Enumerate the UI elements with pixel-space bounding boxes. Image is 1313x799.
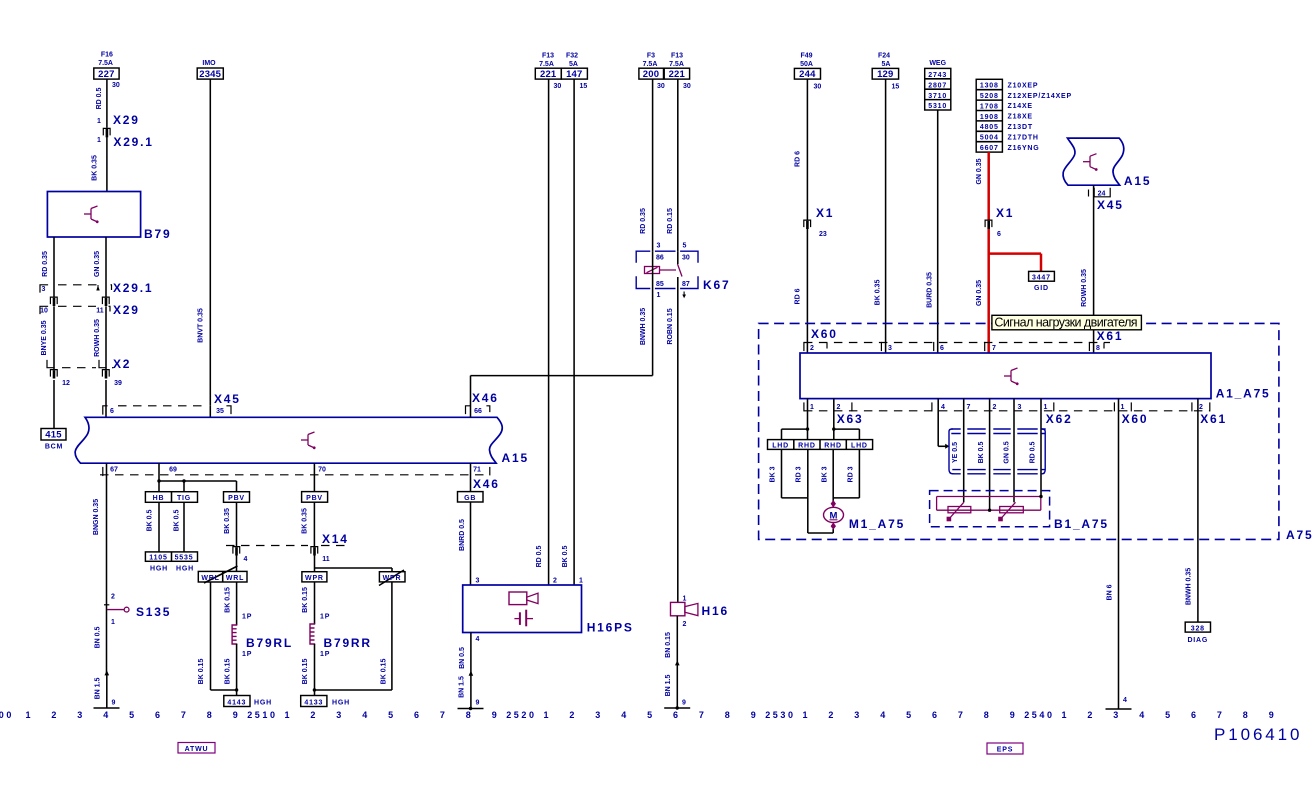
svg-text:6: 6 (932, 710, 940, 720)
ground code 4133 HGH (301, 696, 350, 707)
label X60 (bottom) (1122, 412, 1149, 426)
variant codes LHD/RHD/RHD/LHD (768, 440, 873, 450)
svg-text:H16PS: H16PS (587, 621, 634, 635)
wire BK 0.5 from F32/15 to H16PS/1 (562, 79, 574, 585)
B1_A75 internal circuit (potentiometers) (937, 495, 1043, 522)
svg-text:7: 7 (181, 710, 189, 720)
wire BK 0.35 from PBV right to X14/11 (302, 502, 315, 546)
svg-text:X1: X1 (996, 206, 1014, 220)
svg-text:X46: X46 (473, 477, 500, 491)
wire BK 0.5 (HB to 1105) (147, 502, 160, 552)
svg-text:1: 1 (657, 292, 661, 299)
svg-text:4: 4 (1123, 697, 1127, 704)
svg-text:1P: 1P (242, 651, 252, 658)
label X29 (lower) (113, 303, 140, 317)
svg-text:8: 8 (207, 710, 215, 720)
wire BN 6 from X60/1 to ground (1107, 399, 1119, 709)
svg-text:A75: A75 (1286, 528, 1313, 542)
wire BNWH 0.35 from K67/85 to X46/66 (471, 289, 653, 418)
svg-text:Z14XE: Z14XE (1008, 103, 1033, 110)
svg-text:HB: HB (153, 495, 165, 502)
svg-text:Сигнал нагрузки двигателя: Сигнал нагрузки двигателя (994, 316, 1137, 330)
wire from X14/4 splitting to WRL (204, 555, 238, 583)
svg-text:PBV: PBV (228, 495, 245, 502)
svg-text:1: 1 (579, 578, 583, 585)
svg-text:2: 2 (569, 710, 577, 720)
fuse F49 50A (244) (794, 53, 821, 91)
svg-text:200: 200 (643, 69, 659, 80)
svg-text:15: 15 (892, 84, 900, 91)
svg-text:5: 5 (906, 710, 914, 720)
svg-text:2: 2 (111, 594, 115, 601)
engine variant table (1308..6607) (976, 79, 1072, 152)
svg-text:66: 66 (474, 408, 482, 415)
svg-text:BK 0.35: BK 0.35 (224, 508, 231, 534)
svg-text:K67: K67 (703, 278, 730, 292)
wire from A15/69 with junction (159, 463, 237, 492)
svg-text:3: 3 (657, 243, 661, 250)
svg-text:A15: A15 (1124, 174, 1151, 188)
svg-text:RD 6: RD 6 (795, 151, 802, 167)
ground (H16PS), pin 9 (458, 700, 484, 711)
svg-text:30: 30 (682, 255, 690, 262)
label X62 (1046, 412, 1073, 426)
pump motor M1_A75 (824, 500, 906, 531)
svg-text:Z13DT: Z13DT (1008, 124, 1033, 131)
svg-text:24: 24 (1098, 190, 1106, 197)
svg-text:6607: 6607 (980, 145, 999, 152)
svg-text:6: 6 (673, 710, 681, 720)
wire BNWH 0.35 from X61/2 to DIAG (1186, 399, 1198, 622)
svg-text:2: 2 (1199, 404, 1203, 411)
svg-text:2: 2 (553, 578, 557, 585)
svg-text:2530: 2530 (765, 710, 795, 720)
connector X46 top label (472, 391, 499, 405)
label X61 (bottom) (1200, 412, 1227, 426)
svg-text:1: 1 (810, 404, 814, 411)
switch S135 (104, 594, 171, 627)
svg-text:HGH: HGH (150, 566, 168, 573)
svg-text:RD 0.5: RD 0.5 (1030, 442, 1037, 464)
svg-text:1P: 1P (320, 614, 330, 621)
svg-text:30: 30 (657, 83, 665, 90)
svg-text:PBV: PBV (306, 495, 323, 502)
wire BNGN 0.35 from A15/67 to S135 (93, 463, 107, 604)
svg-text:ROBN 0.15: ROBN 0.15 (667, 308, 674, 344)
fuse F3 7.5A (200) (639, 53, 665, 91)
svg-text:BK 0.5: BK 0.5 (978, 442, 985, 464)
svg-text:9: 9 (112, 700, 116, 707)
svg-text:LHD: LHD (851, 443, 868, 450)
svg-text:RD 3: RD 3 (848, 466, 855, 482)
svg-text:BN 0.5: BN 0.5 (95, 627, 102, 649)
svg-text:3: 3 (1113, 710, 1121, 720)
wire ROBN 0.15 from K67/87 to H16/1 (667, 289, 678, 603)
diagnostic node 328 DIAG (1185, 622, 1210, 644)
svg-text:B1_A75: B1_A75 (1054, 517, 1109, 531)
svg-text:HGH: HGH (176, 566, 194, 573)
svg-text:5535: 5535 (175, 555, 194, 562)
svg-text:1: 1 (802, 710, 810, 720)
svg-text:HGH: HGH (332, 700, 350, 707)
connector X46 bottom dashed line (100, 474, 488, 476)
svg-text:2: 2 (1087, 710, 1095, 720)
ground (H16), pin 9 (664, 700, 690, 710)
svg-text:2520: 2520 (506, 710, 536, 720)
svg-text:35: 35 (216, 408, 224, 415)
svg-text:HGH: HGH (254, 700, 272, 707)
wire A15/71 to GB (470, 463, 472, 491)
svg-text:4: 4 (244, 556, 248, 563)
svg-text:87: 87 (682, 281, 690, 288)
svg-text:X45: X45 (1097, 198, 1124, 212)
horn H16 (671, 596, 729, 629)
wire from X14/11 splitting to WPR (315, 555, 405, 586)
svg-text:BK 0.35: BK 0.35 (92, 155, 99, 181)
svg-text:11: 11 (322, 556, 330, 563)
svg-text:4143: 4143 (227, 699, 246, 706)
svg-text:7: 7 (699, 710, 707, 720)
wire RD 0.35 from B79 to X29.1 (42, 237, 54, 297)
connector line X60/X61 (dashed) (804, 342, 1110, 344)
svg-text:ATWU: ATWU (185, 746, 209, 753)
connector codes WPR / WPR (302, 572, 405, 582)
svg-text:EPS: EPS (997, 747, 1013, 754)
svg-text:5: 5 (647, 710, 655, 720)
wire RD 3 (RHD2) (796, 449, 808, 498)
svg-text:1105: 1105 (149, 555, 167, 562)
svg-text:227: 227 (98, 69, 114, 80)
component B79 heated washer jets control (47, 192, 171, 242)
svg-text:X60: X60 (1122, 412, 1149, 426)
connector X29.1 row (pins 3, arrow) (40, 285, 112, 293)
svg-text:X29: X29 (113, 113, 140, 127)
fuse F16 7.5A (227) (94, 52, 120, 90)
svg-text:1: 1 (284, 710, 292, 720)
svg-text:RHD: RHD (798, 443, 816, 450)
svg-text:8: 8 (725, 710, 733, 720)
svg-text:F24: F24 (878, 53, 890, 60)
svg-text:221: 221 (540, 69, 557, 80)
svg-text:S135: S135 (136, 605, 171, 619)
svg-text:2: 2 (828, 710, 836, 720)
svg-text:BK 0.5: BK 0.5 (174, 510, 181, 532)
wire GN 0.35 (highlighted) from table to X1/6 (976, 152, 989, 219)
svg-text:86: 86 (656, 255, 664, 262)
wire BURD 0.35 from WEG to X60/6 (927, 110, 938, 353)
label X29 (113, 113, 140, 127)
svg-text:71: 71 (473, 467, 481, 474)
svg-text:BN 6: BN 6 (1107, 584, 1114, 600)
svg-text:2: 2 (993, 404, 997, 411)
connector X14 dashed line (226, 545, 345, 547)
X62 pin 7 (967, 404, 971, 411)
svg-text:3: 3 (854, 710, 862, 720)
connector X1 pin 6 (985, 206, 1014, 238)
horn module H16PS (463, 578, 634, 635)
svg-text:3: 3 (595, 710, 603, 720)
svg-text:129: 129 (877, 69, 893, 80)
svg-text:RD 0.35: RD 0.35 (640, 208, 647, 234)
svg-text:4: 4 (103, 710, 111, 720)
svg-text:YE 0.5: YE 0.5 (952, 442, 959, 463)
wire merge left pair to motor bottom (782, 498, 834, 533)
diagram number P106410 (1214, 725, 1302, 744)
heater element B79RL (232, 625, 293, 650)
svg-text:85: 85 (656, 281, 664, 288)
svg-text:5: 5 (1165, 710, 1173, 720)
svg-text:BK 0.15: BK 0.15 (225, 587, 232, 613)
svg-text:BK 0.15: BK 0.15 (381, 659, 388, 685)
fuse F13 7.5A (221) right (664, 53, 691, 91)
label X2 (113, 357, 131, 371)
wire BN 0.5 from H16PS/4 (459, 633, 480, 674)
svg-text:5310: 5310 (928, 103, 947, 110)
svg-text:F16: F16 (101, 52, 113, 59)
svg-text:7: 7 (967, 404, 971, 411)
heater element B79RR (310, 624, 372, 650)
tooltip: Сигнал нагрузки двигателя (992, 315, 1142, 330)
svg-text:RD 0.5: RD 0.5 (96, 88, 103, 110)
svg-text:4: 4 (362, 710, 370, 720)
connector X1 pin 23 (804, 206, 834, 238)
wire BK 0.15 from WPR(1) to B79RR (302, 582, 330, 624)
power steering module A1_A75 (800, 353, 1271, 401)
svg-text:3: 3 (888, 345, 892, 352)
svg-text:WPR: WPR (305, 575, 324, 582)
connector X2 (pins 12, 39) (47, 361, 122, 388)
svg-text:BN 1.5: BN 1.5 (459, 676, 466, 698)
svg-text:ROWH 0.35: ROWH 0.35 (1081, 269, 1088, 307)
connector X14 pin 4 (233, 547, 248, 563)
svg-text:00: 00 (0, 710, 14, 720)
wire X62/4 to shield (drain) (938, 399, 949, 449)
svg-text:BK 0.15: BK 0.15 (225, 659, 232, 685)
svg-text:4: 4 (941, 404, 945, 411)
svg-text:RD 3: RD 3 (796, 466, 803, 482)
svg-text:2743: 2743 (928, 72, 947, 79)
svg-text:F13: F13 (542, 53, 554, 60)
wire BK 3 (LHD1) (770, 449, 782, 498)
X62 pin 4 (932, 403, 945, 411)
ECU A15 (fragment) (1063, 138, 1151, 188)
wire GN 0.5 X62/3 to B1_A75 (1004, 399, 1015, 503)
connector codes WRL / WRL (198, 571, 247, 582)
wire YE 0.5 X62/7 to B1_A75 (952, 399, 964, 503)
svg-text:BNGN 0.35: BNGN 0.35 (93, 499, 100, 535)
junction above 4133 (313, 688, 392, 691)
wire RD 0.5 X62/1 to B1_A75 (1030, 399, 1042, 497)
wire BNVT 0.35 from IMO to X45/35 (198, 79, 211, 406)
assembly boundary A75 (dashed) (759, 323, 1313, 542)
svg-text:10: 10 (40, 308, 48, 315)
svg-text:BNYE 0.35: BNYE 0.35 (41, 320, 48, 355)
connector WEG (2743/2807/3710/5310) (925, 60, 951, 110)
svg-text:Z12XEP/Z14XEP: Z12XEP/Z14XEP (1008, 93, 1072, 100)
wire BK 0.15 from WRL(1) down (198, 582, 211, 690)
svg-text:1: 1 (683, 596, 687, 603)
wire BK 0.15 from B79RR to 4133 (302, 644, 330, 696)
svg-text:1: 1 (1061, 710, 1069, 720)
svg-text:6: 6 (940, 345, 944, 352)
svg-text:3710: 3710 (928, 93, 947, 100)
svg-text:2: 2 (837, 404, 841, 411)
label X29.1 (lower) (113, 281, 153, 295)
fuse F32 5A (147) (561, 53, 587, 91)
svg-text:IMO: IMO (202, 60, 216, 67)
svg-text:P106410: P106410 (1214, 725, 1302, 744)
svg-text:1: 1 (543, 710, 551, 720)
svg-text:BK 0.35: BK 0.35 (302, 508, 309, 534)
svg-text:BN 0.15: BN 0.15 (665, 632, 672, 658)
svg-text:3447: 3447 (1032, 275, 1051, 282)
svg-text:BK 0.5: BK 0.5 (562, 546, 569, 568)
connector plug symbols X29 (left+right) (50, 297, 109, 306)
svg-text:1708: 1708 (980, 103, 999, 110)
svg-text:X46: X46 (472, 391, 499, 405)
svg-text:1: 1 (1121, 404, 1125, 411)
splice on H16 ground wire (675, 660, 680, 665)
svg-text:5208: 5208 (980, 93, 999, 100)
svg-text:9: 9 (476, 700, 480, 707)
svg-text:3: 3 (1018, 404, 1022, 411)
svg-text:9: 9 (751, 710, 759, 720)
connector X45 (pins 6, 35) (103, 406, 231, 415)
wire BNYE 0.35 from X29/10 to X2/12 (41, 306, 54, 369)
wire RD 0.35 from F3 to K67/86 (640, 79, 653, 251)
wire RD 0.5 from F13/30 to H16PS/2 (536, 79, 549, 585)
wire RD 0.15 from F13 to K67/30 (667, 79, 678, 251)
svg-text:39: 39 (114, 380, 122, 387)
svg-text:6: 6 (110, 408, 114, 415)
svg-text:WEG: WEG (929, 60, 946, 67)
svg-text:3: 3 (336, 710, 344, 720)
ground code 4143 HGH (224, 696, 272, 707)
svg-text:F32: F32 (566, 53, 578, 60)
svg-text:5A: 5A (569, 61, 578, 68)
svg-text:BCM: BCM (45, 444, 63, 451)
svg-text:X29.1: X29.1 (113, 281, 153, 295)
svg-text:12: 12 (62, 380, 70, 387)
svg-text:Z18XE: Z18XE (1008, 114, 1033, 121)
label X46 (bottom) (473, 477, 500, 491)
svg-text:X61: X61 (1200, 412, 1227, 426)
svg-text:6: 6 (1191, 710, 1199, 720)
svg-text:X1: X1 (816, 206, 834, 220)
splice on H16PS ground wire (469, 671, 474, 676)
svg-text:7.5A: 7.5A (539, 61, 554, 68)
connector X46 pin 66 (466, 406, 490, 415)
svg-text:30: 30 (554, 83, 562, 90)
svg-text:X63: X63 (837, 412, 864, 426)
svg-text:9: 9 (1269, 710, 1277, 720)
X62 pin 2 (993, 404, 997, 411)
wire GN 0.35 from B79 to X29.1 (94, 237, 106, 297)
svg-text:Z16YNG: Z16YNG (1008, 145, 1040, 152)
svg-text:F49: F49 (800, 53, 812, 60)
connector code PBV (right) (302, 492, 328, 503)
svg-text:X45: X45 (214, 392, 241, 406)
wire BK 0.35 from PBV to X14/4 (224, 502, 237, 546)
wire RD 6 from X1 to X60/2 (795, 229, 808, 353)
svg-text:A1_A75: A1_A75 (1216, 387, 1271, 401)
svg-text:RD 0.5: RD 0.5 (536, 546, 543, 568)
function frame EPS (987, 743, 1023, 754)
instrument node 3447 GID (1029, 271, 1055, 292)
svg-text:BNVT 0.35: BNVT 0.35 (198, 308, 205, 343)
svg-text:2510: 2510 (247, 710, 277, 720)
svg-text:30: 30 (112, 82, 120, 89)
svg-text:BNWH 0.35: BNWH 0.35 (640, 308, 647, 345)
X60 pin 7 (985, 343, 996, 353)
svg-text:2: 2 (310, 710, 318, 720)
svg-text:8: 8 (984, 710, 992, 720)
wire RD 6 from F49 to X1/23 (795, 79, 808, 219)
svg-text:7.5A: 7.5A (669, 61, 684, 68)
svg-text:WRL: WRL (201, 575, 219, 582)
svg-text:GN 0.5: GN 0.5 (1004, 441, 1011, 463)
wire X63/1 to LHD/RHD boxes (782, 399, 810, 440)
svg-text:5004: 5004 (980, 135, 999, 142)
fuse F24 5A (129) (872, 53, 899, 91)
svg-text:BK 0.35: BK 0.35 (875, 280, 882, 306)
X60 pin 2 (804, 343, 827, 353)
svg-text:RHD: RHD (824, 443, 842, 450)
svg-text:1308: 1308 (980, 83, 999, 90)
fuse F13 7.5A (221) (535, 53, 561, 91)
wire BN 0.5 from S135 to splice (95, 605, 107, 673)
svg-text:5: 5 (129, 710, 137, 720)
svg-text:9: 9 (1010, 710, 1018, 720)
svg-text:1: 1 (97, 118, 101, 125)
wire BN 1.5 to ground (95, 673, 107, 708)
svg-text:5A: 5A (882, 61, 891, 68)
svg-text:B79RR: B79RR (324, 636, 372, 650)
wire BK 3 (RHD3) (822, 449, 834, 507)
svg-text:RD 0.15: RD 0.15 (667, 208, 674, 234)
svg-text:7: 7 (992, 345, 996, 352)
X62 pin 3 (1018, 404, 1022, 411)
wire BN 1.5 to ground (H16) (665, 663, 677, 708)
svg-text:LHD: LHD (772, 443, 789, 450)
coordinate ruler 2500-2549 (0, 710, 1276, 720)
wire ROWH 0.35 from A15/24 to X61/8 (1081, 185, 1094, 353)
svg-text:8: 8 (466, 710, 474, 720)
sensor B1_A75 (dashed box) (930, 491, 1109, 531)
svg-text:ROWH 0.35: ROWH 0.35 (94, 319, 101, 357)
svg-text:8: 8 (1096, 345, 1100, 352)
svg-text:1908: 1908 (980, 114, 999, 121)
svg-text:BN 0.5: BN 0.5 (459, 647, 466, 669)
svg-text:BNWH 0.35: BNWH 0.35 (1186, 568, 1193, 605)
label X63 (837, 412, 864, 426)
svg-text:BN 1.5: BN 1.5 (95, 678, 102, 700)
svg-text:2345: 2345 (199, 69, 221, 80)
svg-text:2: 2 (810, 345, 814, 352)
svg-text:7.5A: 7.5A (643, 61, 658, 68)
connector X29 row (pins 10, 11) (40, 306, 111, 314)
ground codes 1105 / 5535 (145, 552, 197, 573)
svg-text:4805: 4805 (980, 124, 999, 131)
svg-text:1P: 1P (242, 614, 252, 621)
X63 pin 1 (804, 403, 814, 411)
label X60 (top) (811, 327, 838, 341)
junction above 4143 (211, 688, 239, 691)
svg-text:GN 0.35: GN 0.35 (976, 280, 983, 306)
X60 pin 1 (bottom) (1114, 403, 1131, 411)
svg-text:X2: X2 (113, 357, 131, 371)
svg-text:70: 70 (318, 467, 326, 474)
